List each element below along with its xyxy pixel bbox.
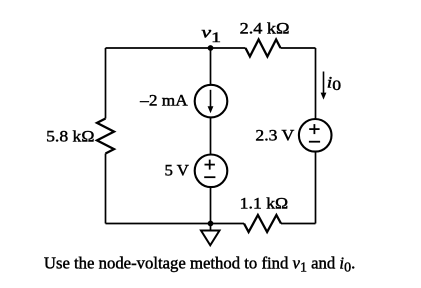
plus sign inside 5V source: [205, 164, 215, 166]
node v1 junction dot: [208, 45, 214, 51]
voltage source V2 2.3 V (circle): [299, 119, 332, 152]
wire middle: current source to 5V source: [210, 117, 212, 154]
resistor R 5.8 kOhm (left, vertical): [97, 119, 114, 154]
wire top: node v1 to resistor 2.4k left lead: [211, 47, 246, 49]
current source I1 -2 mA (circle): [195, 85, 228, 118]
svg-text:–2 mA: –2 mA: [139, 92, 188, 109]
wire right side: 2.3V source to bottom-right corner: [315, 151, 317, 223]
bottom node junction dot: [208, 221, 214, 227]
current i0 arrow (downward, right of wire): [323, 72, 325, 95]
wire bottom: bottom-left corner to bottom node: [106, 223, 211, 225]
current source arrow (downward): [210, 90, 212, 109]
svg-text:2.3 V: 2.3 V: [255, 128, 294, 145]
resistor R 1.1 kOhm (bottom): [244, 215, 281, 232]
resistor R 2.4 kOhm (top): [246, 40, 281, 57]
svg-text:i0: i0: [327, 74, 341, 94]
wire bottom: node to resistor 1.1k: [211, 223, 245, 225]
svg-text:2.4 kΩ: 2.4 kΩ: [240, 20, 290, 37]
minus sign inside 5V source: [204, 176, 215, 178]
wire left side (top-left corner down to resistor 5.8k): [105, 48, 107, 119]
svg-text:v1: v1: [201, 25, 221, 46]
svg-text:Use the node-voltage method to: Use the node-voltage method to find v1 a…: [44, 254, 355, 276]
voltage source V1 5 V (circle): [195, 155, 228, 188]
wire top-right: resistor to top-right corner: [281, 47, 316, 49]
svg-text:5 V: 5 V: [165, 163, 190, 180]
minus sign inside 2.3V source: [309, 141, 320, 143]
wire right side: top-right corner down to 2.3V source: [315, 48, 317, 119]
svg-text:1.1 kΩ: 1.1 kΩ: [240, 195, 289, 212]
svg-text:5.8 kΩ: 5.8 kΩ: [46, 129, 95, 146]
plus sign inside 2.3V source: [309, 128, 319, 130]
wire middle: 5V source to bottom node: [210, 187, 212, 224]
wire top-left: top-left corner to node v1: [106, 47, 211, 49]
ground symbol: [210, 224, 212, 231]
wire bottom: resistor to bottom-right corner: [281, 223, 316, 225]
wire middle: node v1 down to current source: [210, 48, 212, 85]
wire left side (resistor down to bottom-left corner): [105, 154, 107, 224]
